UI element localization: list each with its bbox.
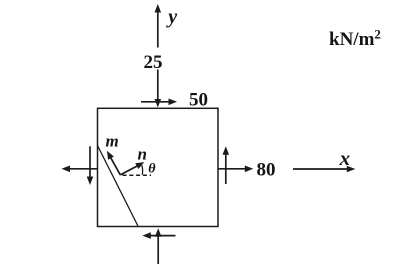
svg-text:y: y <box>166 6 177 28</box>
svg-text:θ: θ <box>148 162 156 177</box>
svg-text:80: 80 <box>257 159 276 180</box>
svg-text:m: m <box>106 132 119 151</box>
svg-text:x: x <box>339 146 351 170</box>
svg-text:50: 50 <box>189 89 208 110</box>
svg-text:25: 25 <box>144 52 163 73</box>
svg-text:n: n <box>138 145 147 164</box>
svg-text:kN/m2: kN/m2 <box>329 27 381 51</box>
